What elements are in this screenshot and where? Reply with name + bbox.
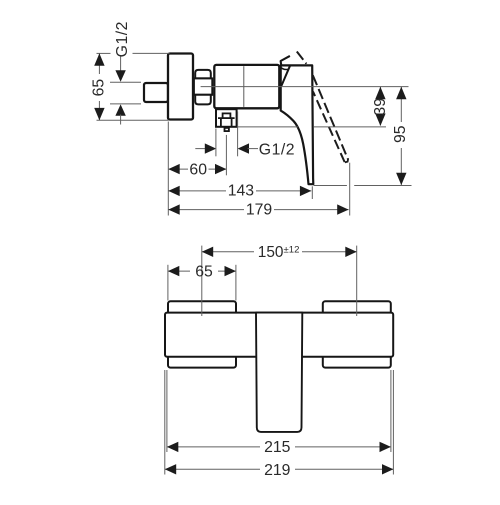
hex nut bottom cap (195, 95, 211, 105)
handle front (256, 313, 302, 432)
dim 60 (168, 168, 188, 170)
handle (side) (281, 65, 314, 184)
outlet G1/2 leader left (195, 148, 206, 150)
svg-text:G1/2: G1/2 (114, 21, 131, 57)
outlet G1/2 ext lines (215, 129, 217, 157)
dashed lever back tip (297, 52, 307, 64)
svg-text:G1/2: G1/2 (259, 142, 295, 159)
svg-text:179: 179 (246, 201, 273, 218)
dim 179 (168, 209, 244, 211)
G1/2 lower arrow (115, 104, 125, 115)
dim 39 bottom ext (238, 126, 298, 128)
G1/2 top ext lines (110, 81, 141, 83)
outlet nut shoulder line (218, 117, 235, 119)
centerline through body and handle (201, 86, 409, 88)
dim 215 (167, 446, 260, 448)
outlet nut boss (223, 113, 231, 118)
dim 65 front ext lines (167, 265, 169, 301)
escutcheon (side) (168, 54, 193, 120)
wall nipple G1/2 (144, 83, 168, 102)
dim 150 ext lines (201, 246, 203, 316)
hex nut middle (194, 78, 212, 94)
svg-text:65: 65 (195, 263, 213, 280)
hex nut top cap (195, 70, 211, 79)
dim 65 left: extension lines (97, 52, 111, 54)
outlet housing (216, 109, 237, 127)
outlet G1/2 leader right (238, 143, 249, 153)
dim 179 right ext (349, 163, 351, 216)
body divider line (243, 66, 245, 107)
svg-text:60: 60 (189, 162, 207, 179)
dim 143 right ext (311, 186, 313, 199)
left escutcheon front (168, 301, 236, 367)
handle lever tab (281, 56, 290, 66)
svg-text:95: 95 (392, 125, 409, 143)
dim 95 (400, 87, 402, 122)
dashed lever back edge (313, 92, 345, 163)
dim 65 left: arrowheads (94, 53, 104, 65)
handle interior slant edge (281, 65, 290, 86)
svg-text:219: 219 (264, 462, 291, 479)
dim 215 ext lines (166, 370, 168, 452)
dashed lever front edge (313, 75, 348, 159)
dim 143 (168, 190, 226, 192)
svg-text:143: 143 (228, 183, 255, 200)
dim 150±12 (202, 251, 254, 253)
outlet nipple nub (225, 128, 229, 131)
outlet nut sides (220, 118, 222, 126)
dim 219 ext lines (164, 370, 166, 475)
dim 219 (165, 468, 260, 470)
dim 39 (379, 87, 381, 96)
dim 65 left: line (98, 53, 100, 74)
dashed lever tip cap (345, 158, 348, 162)
svg-text:39: 39 (372, 98, 389, 116)
body bar front (165, 313, 393, 357)
fillet arc under tab (279, 67, 288, 70)
G1/2 top leader (120, 57, 122, 73)
svg-text:65: 65 (90, 79, 107, 97)
right escutcheon front (323, 301, 391, 367)
dim 60 ext: left shared ext line (167, 122, 169, 216)
dim 60 ext: outlet centerline (225, 135, 227, 175)
dim 95 bottom ext (314, 185, 347, 187)
dim 65 front (168, 270, 190, 272)
mixer body (214, 65, 279, 108)
svg-text:215: 215 (264, 439, 291, 456)
